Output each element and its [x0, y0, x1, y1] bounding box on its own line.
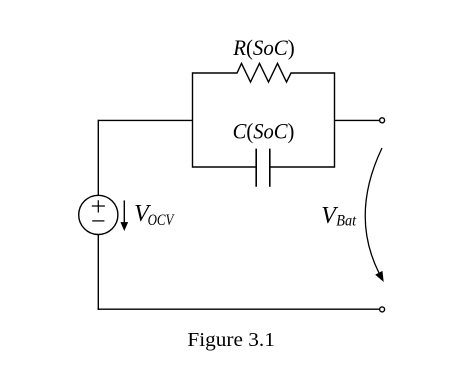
voltage source plus sign	[92, 200, 105, 212]
capacitor C(SoC) right lead	[270, 166, 335, 168]
arrow for VOCV (down arrow beside source)	[123, 200, 125, 223]
capacitor C(SoC) plates	[256, 149, 270, 187]
wire RC block left edge	[192, 72, 194, 167]
resistor R(SoC) with leads on top edge	[193, 63, 335, 82]
svg-text:R(SoC): R(SoC)	[232, 35, 294, 60]
wire left rail lower vertical	[97, 235, 99, 310]
voltage source U1 circle	[79, 195, 118, 234]
wire bottom rail	[98, 308, 380, 310]
wire RC block right edge	[334, 72, 336, 167]
wire RC block to top terminal	[335, 119, 380, 121]
wire top horizontal from left rail to RC block	[98, 119, 192, 121]
arrow for VBat (curved arc)	[365, 148, 382, 273]
voltage source minus sign	[92, 220, 104, 222]
svg-text:C(SoC): C(SoC)	[233, 119, 295, 144]
capacitor C(SoC) left lead	[193, 166, 257, 168]
svg-text:Figure 3.1: Figure 3.1	[187, 329, 275, 351]
wire left rail upper vertical	[97, 120, 99, 196]
terminal bottom (open circle)	[380, 307, 385, 312]
terminal top (open circle)	[380, 118, 385, 123]
